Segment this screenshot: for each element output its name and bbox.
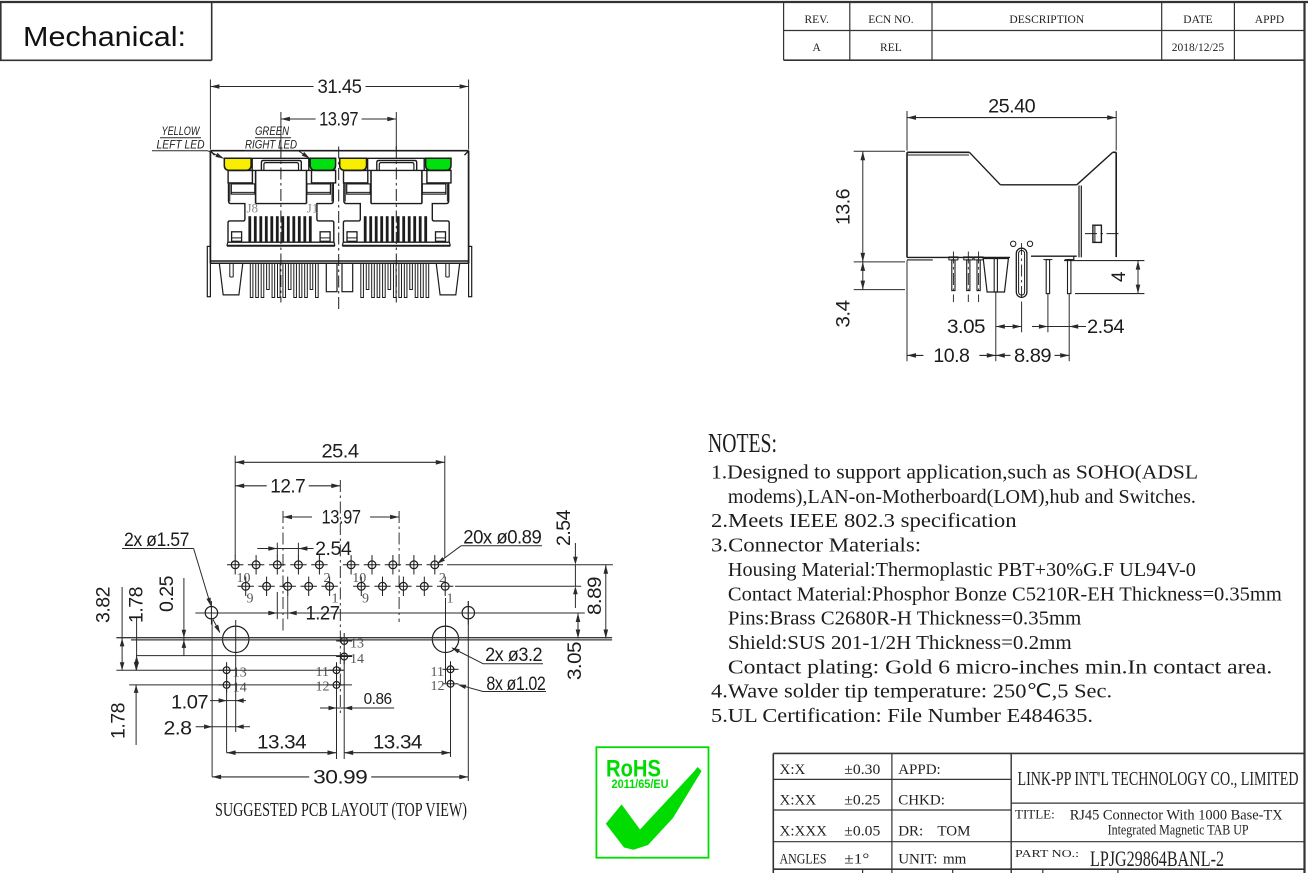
- side view pins group right: [1046, 260, 1049, 294]
- svg-text:±0.25: ±0.25: [844, 792, 880, 808]
- dimension 2.54 pcb top: [276, 543, 278, 556]
- svg-text:0.25: 0.25: [157, 576, 178, 612]
- dimension 2.54 side: [1032, 326, 1048, 328]
- svg-text:SUGGESTED PCB LAYOUT (TOP VIEW: SUGGESTED PCB LAYOUT (TOP VIEW): [215, 799, 467, 821]
- yellow LED: [224, 158, 251, 170]
- dimension 30.99: [212, 776, 309, 778]
- svg-text:LINK-PP INT'L TECHNOLOGY CO.,: LINK-PP INT'L TECHNOLOGY CO., LIMITED: [1018, 768, 1299, 790]
- right pin comb: [426, 263, 429, 297]
- svg-text:1.78: 1.78: [127, 587, 148, 623]
- right inner boot: [342, 263, 353, 292]
- svg-text:Pins:Brass C2680R-H Thickness: Pins:Brass C2680R-H Thickness=0.35mm: [728, 609, 1081, 630]
- svg-text:12: 12: [316, 680, 330, 695]
- svg-text:13: 13: [350, 636, 364, 651]
- svg-text:3.82: 3.82: [94, 587, 115, 623]
- port mid line under LEDs: [344, 169, 452, 171]
- dimension 31.45: [209, 80, 211, 150]
- svg-text:±0.30: ±0.30: [844, 762, 880, 778]
- svg-text:2x ø1.57: 2x ø1.57: [124, 530, 189, 551]
- svg-text:1.27: 1.27: [306, 604, 340, 625]
- svg-text:2.Meets IEEE 802.3 specificati: 2.Meets IEEE 802.3 specification: [711, 511, 1017, 532]
- dimension 0.86: [320, 707, 337, 709]
- front view side ground tab left: [207, 246, 210, 296]
- svg-text:2.54: 2.54: [1087, 317, 1125, 338]
- svg-text:3.05: 3.05: [565, 642, 586, 680]
- svg-text:1.07: 1.07: [171, 693, 208, 714]
- svg-text:1.78: 1.78: [109, 703, 130, 739]
- right LED pocket: [427, 170, 451, 183]
- left boot leg: [219, 263, 243, 295]
- svg-text:14: 14: [233, 681, 247, 696]
- dimension 8.89: [996, 354, 1011, 356]
- svg-text:±0.05: ±0.05: [844, 824, 880, 840]
- svg-text:2011/65/EU: 2011/65/EU: [612, 779, 669, 791]
- pcb centerlines: [282, 511, 284, 631]
- svg-text:25.4: 25.4: [322, 442, 360, 463]
- left opening wall profile: [343, 183, 360, 242]
- svg-text:13: 13: [233, 666, 247, 681]
- extension lines side bottom: [906, 261, 908, 362]
- front view shield body outline: [210, 150, 468, 152]
- left step block: [231, 184, 255, 194]
- svg-text:APPD: APPD: [1255, 14, 1284, 26]
- dimension 2.54 pcb right: [574, 543, 576, 560]
- revision table: [783, 2, 785, 60]
- dimension 1.27: [276, 592, 278, 619]
- left opening wall profile: [228, 183, 245, 242]
- svg-text:31.45: 31.45: [318, 77, 362, 98]
- svg-text:modems),LAN-on-Motherboard(LOM: modems),LAN-on-Motherboard(LOM),hub and …: [728, 487, 1196, 508]
- svg-text:13.34: 13.34: [373, 733, 423, 754]
- svg-text:Housing Material:Thermoplastic: Housing Material:Thermoplastic PBT+30%G.…: [728, 560, 1196, 581]
- side view bottom edges: [907, 256, 1010, 258]
- svg-text:YELLOW: YELLOW: [162, 126, 201, 138]
- mounting holes 1.57: [205, 607, 217, 619]
- dimension 1.78 upper: [136, 618, 138, 670]
- svg-text:J1: J1: [307, 201, 319, 216]
- dimension 13.97 front: [280, 112, 282, 150]
- dimension 3.05 pcb right: [577, 613, 579, 639]
- right boot leg: [436, 263, 460, 295]
- front view side ground tab right: [469, 246, 472, 296]
- dimension 12.7: [235, 485, 267, 487]
- svg-text:X:X: X:X: [780, 762, 806, 778]
- dimension 3.82: [121, 587, 123, 670]
- title box Mechanical: [0, 2, 2, 60]
- svg-text:A: A: [813, 42, 822, 54]
- side view pins group left: [949, 257, 958, 260]
- dimension 1.07: [210, 700, 227, 702]
- svg-text:9: 9: [247, 592, 254, 607]
- svg-text:DESCRIPTION: DESCRIPTION: [1009, 14, 1084, 26]
- svg-text:1.Designed to support applicat: 1.Designed to support application,such a…: [711, 463, 1198, 484]
- rohs checkmark: [606, 767, 702, 850]
- dimension 3.05 side: [996, 326, 1022, 328]
- yellow LED: [340, 158, 367, 170]
- svg-text:mm: mm: [943, 852, 967, 868]
- svg-text:14: 14: [350, 652, 364, 667]
- svg-text:X:XXX: X:XXX: [780, 824, 828, 840]
- svg-text:5.UL Certification: File Numbe: 5.UL Certification: File Number E484635.: [711, 706, 1093, 727]
- plug cavity: [370, 170, 372, 203]
- svg-text:10.8: 10.8: [933, 346, 969, 367]
- svg-text:J8: J8: [247, 201, 259, 216]
- svg-text:CHKD:: CHKD:: [898, 792, 945, 808]
- svg-text:REL: REL: [880, 42, 902, 54]
- mouth bottom rim: [228, 241, 334, 243]
- svg-text:Contact plating: Gold 6 micro-: Contact plating: Gold 6 micro-inches min…: [728, 657, 1272, 678]
- svg-text:2x ø3.2: 2x ø3.2: [485, 645, 542, 666]
- svg-text:LPJG29864BANL-2: LPJG29864BANL-2: [1090, 846, 1224, 871]
- port mid line under LEDs: [228, 169, 336, 171]
- svg-text:DATE: DATE: [1183, 14, 1212, 26]
- svg-text:13.97: 13.97: [319, 110, 358, 131]
- mouth bottom rim: [343, 241, 449, 243]
- dimension 3.4: [854, 261, 905, 263]
- front view centerline overall: [338, 147, 340, 310]
- svg-text:ECN NO.: ECN NO.: [868, 14, 913, 26]
- right opening wall profile: [317, 183, 334, 242]
- svg-text:4.Wave solder tip temperature:: 4.Wave solder tip temperature: 250℃,5 Se…: [711, 682, 1112, 703]
- svg-text:NOTES:: NOTES:: [708, 428, 777, 458]
- svg-text:DR:: DR:: [898, 824, 923, 840]
- svg-text:UNIT:: UNIT:: [898, 852, 937, 868]
- dimension 13.97 pcb: [283, 516, 312, 518]
- green LED: [426, 158, 451, 170]
- svg-text:Shield:SUS 201-1/2H Thickness: Shield:SUS 201-1/2H Thickness=0.2mm: [728, 633, 1072, 654]
- svg-text:9: 9: [362, 592, 369, 607]
- svg-text:TITLE:: TITLE:: [1015, 807, 1055, 822]
- dimension 25.40: [906, 111, 908, 151]
- side view pcb surface line right: [1064, 260, 1144, 262]
- svg-text:2.54: 2.54: [554, 509, 575, 546]
- svg-text:LEFT LED: LEFT LED: [157, 140, 205, 152]
- svg-text:13.34: 13.34: [257, 733, 307, 754]
- plug cavity: [255, 170, 257, 203]
- svg-text:3.4: 3.4: [834, 299, 855, 327]
- left LED pocket: [228, 170, 252, 183]
- svg-text:X:XX: X:XX: [780, 792, 817, 808]
- latch window: [251, 158, 253, 170]
- side view pcb lock tab: [1093, 225, 1102, 242]
- svg-text:2: 2: [439, 571, 446, 586]
- front view centerline port1: [280, 146, 282, 303]
- right opening wall profile: [432, 183, 449, 242]
- svg-text:2.8: 2.8: [164, 719, 192, 740]
- svg-text:RIGHT LED: RIGHT LED: [245, 140, 297, 152]
- dimension 2.8: [196, 726, 213, 728]
- svg-text:2018/12/25: 2018/12/25: [1172, 42, 1225, 54]
- sheet right border: [1303, 2, 1305, 873]
- svg-text:REV.: REV.: [804, 14, 829, 26]
- svg-text:10: 10: [352, 571, 366, 586]
- dimension 1.78 lower: [135, 661, 137, 670]
- svg-text:10: 10: [237, 571, 251, 586]
- dimension 25.4 pcb: [234, 456, 236, 556]
- pcb outline lines: [447, 564, 613, 566]
- led pin holes pairs: [341, 638, 348, 645]
- latch window: [367, 158, 369, 170]
- dimension 4: [1137, 261, 1139, 294]
- svg-text:13.6: 13.6: [834, 189, 855, 225]
- front view top corner chamfers: [210, 151, 214, 156]
- right LED pocket: [312, 170, 336, 183]
- pcb vertical extension lines: [211, 620, 213, 777]
- sheet top border: [0, 1, 1308, 3]
- bottom corner boxes: [347, 232, 357, 242]
- green LED: [310, 158, 335, 170]
- svg-text:12: 12: [431, 679, 445, 694]
- left inner boot: [326, 263, 337, 292]
- port top line: [224, 157, 335, 159]
- rohs logo box: [596, 747, 708, 858]
- dimension 13.6: [854, 150, 905, 152]
- svg-text:3.05: 3.05: [947, 317, 985, 338]
- svg-text:2.54: 2.54: [315, 539, 352, 560]
- svg-text:3.Connector Materials:: 3.Connector Materials:: [711, 536, 921, 557]
- svg-text:±1°: ±1°: [844, 852, 869, 868]
- svg-text:Mechanical:: Mechanical:: [23, 21, 186, 52]
- right step block: [422, 184, 446, 194]
- dimension 13.34 right: [344, 752, 450, 754]
- left pin comb: [250, 263, 253, 297]
- contact teeth comb: [248, 216, 251, 241]
- side view boot leg: [983, 259, 1008, 293]
- svg-text:4: 4: [1109, 271, 1130, 282]
- title block bottom stubs: [862, 869, 864, 873]
- contact teeth comb: [364, 216, 367, 241]
- bottom corner boxes: [232, 232, 242, 242]
- svg-text:13.97: 13.97: [322, 508, 361, 529]
- svg-text:1: 1: [447, 592, 454, 607]
- svg-text:Contact Material:Phosphor Bonz: Contact Material:Phosphor Bonze C5210R-E…: [728, 584, 1282, 605]
- svg-text:25.40: 25.40: [988, 97, 1035, 118]
- right step block: [307, 184, 331, 194]
- svg-text:RJ45 Connector With 1000 Base-: RJ45 Connector With 1000 Base-TX: [1070, 807, 1284, 823]
- dimension 8.89 pcb right: [605, 565, 607, 639]
- side view pin1 in boot: [994, 259, 997, 293]
- front view centerline port2: [395, 146, 397, 303]
- left LED pocket: [344, 170, 368, 183]
- svg-text:0.86: 0.86: [364, 691, 393, 708]
- title block grid: [773, 752, 1304, 754]
- svg-text:Integrated Magnetic TAB UP: Integrated Magnetic TAB UP: [1108, 823, 1249, 839]
- svg-text:11: 11: [431, 665, 444, 680]
- svg-text:12.7: 12.7: [270, 477, 305, 498]
- dimension 0.25: [183, 578, 185, 656]
- svg-text:GREEN: GREEN: [255, 126, 290, 138]
- dimension 13.34 left: [227, 752, 337, 754]
- svg-text:8.89: 8.89: [1014, 346, 1051, 367]
- mounting holes 3.2: [223, 626, 249, 652]
- left step block: [347, 184, 371, 194]
- svg-text:APPD:: APPD:: [898, 762, 941, 778]
- svg-text:ANGLES: ANGLES: [780, 852, 827, 868]
- svg-text:PART NO.:: PART NO.:: [1015, 849, 1079, 860]
- side view body outline: [907, 151, 969, 153]
- svg-text:8.89: 8.89: [585, 577, 606, 615]
- dimension 10.8: [907, 354, 923, 356]
- svg-text:2: 2: [324, 571, 331, 586]
- svg-text:TOM: TOM: [937, 824, 970, 840]
- pcb layout pin grid: [231, 561, 239, 569]
- side view front face double line: [1078, 186, 1080, 258]
- svg-text:11: 11: [316, 665, 329, 680]
- port top line: [340, 157, 451, 159]
- svg-text:30.99: 30.99: [313, 768, 367, 789]
- side view locating post: [1016, 248, 1027, 297]
